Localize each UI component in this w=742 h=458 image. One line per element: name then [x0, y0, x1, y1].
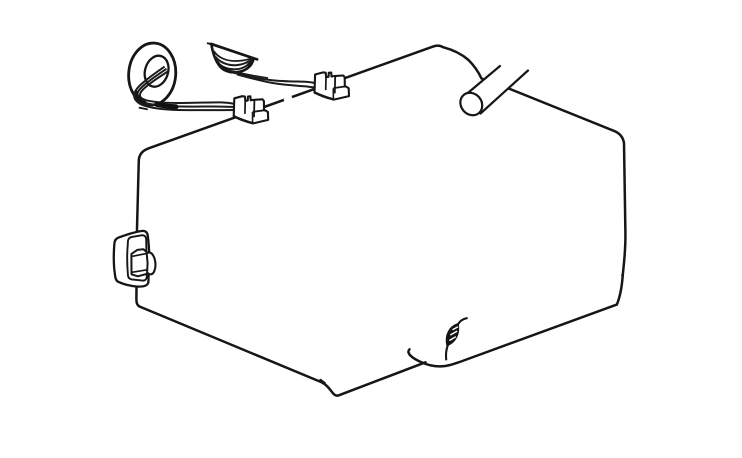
notch tick on bottom edge	[321, 380, 325, 383]
drain fitting lens	[447, 324, 458, 345]
filler tube upper edge	[466, 66, 500, 95]
harness cable strand 1 (top)	[140, 71, 236, 104]
drain lens hatch marks	[449, 327, 458, 341]
bolt hex facet lines	[132, 254, 148, 273]
flap inner wire arc 2	[215, 57, 252, 66]
small dash under grommet	[140, 108, 148, 110]
connector C2 body	[315, 72, 350, 99]
white break in top edge line below wires	[286, 98, 291, 100]
drain fitting tail curve	[458, 318, 467, 325]
flap top edge	[211, 44, 257, 60]
harness cable strand 3 (bottom)	[134, 67, 235, 111]
grommet outer disc	[126, 41, 178, 107]
connector C1 body	[234, 96, 269, 123]
drain fitting stem	[446, 345, 448, 360]
flap exit wire strand 2	[237, 74, 316, 87]
filler tube body fill	[466, 66, 528, 114]
mounting bracket inner rim	[127, 235, 147, 280]
harness cable strand 2 (middle)	[137, 69, 236, 107]
grommet inner hole	[141, 53, 172, 90]
filler tube end cap ellipse	[456, 88, 487, 119]
filler tube lower edge	[481, 71, 529, 114]
bolt end cap (shaft end, behind hex)	[143, 252, 156, 275]
dark sleeve blob on cable	[157, 105, 176, 107]
flap tip dark wedge	[249, 58, 254, 64]
mounting bracket outer	[114, 231, 149, 287]
flap U-turn thick wire	[218, 63, 232, 73]
flap inner wire arc 1	[217, 60, 252, 70]
bolt hex head	[131, 249, 147, 276]
flap inner wire arc 3	[214, 51, 253, 61]
flap exit wire strand short	[228, 70, 268, 78]
small bump on right edge	[621, 274, 624, 277]
wire flap cover fill	[211, 44, 253, 72]
dark thick bend at loop bottom	[137, 93, 145, 103]
fuel tank main outline	[136, 46, 625, 367]
flap apex tick	[208, 43, 214, 44]
fuel tank bottom-left edge with notch	[140, 307, 426, 396]
flap exit wire strand 1	[233, 73, 316, 84]
